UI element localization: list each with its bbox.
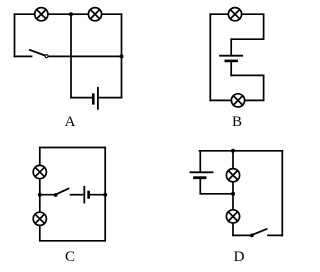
wire A middle horizontal left segment (to switch) — [15, 55, 32, 57]
battery G3 short plate (circuit C, right) — [87, 192, 90, 197]
wire D loop bottom horizontal — [200, 193, 233, 195]
node junction dot D middle (loop bottom to main vertical) — [231, 192, 235, 196]
wire A top: y=14.2 from left corner to right corner — [15, 13, 122, 15]
wire C top: y=147.5 — [40, 147, 105, 149]
switch S1 pivot circle — [45, 55, 48, 58]
lamp L4 (circuit B, bottom) — [231, 94, 244, 107]
battery G3 long plate (circuit C, left) — [83, 187, 85, 203]
wire D top: y=150.8 — [200, 150, 283, 152]
wire D main vertical (through lamps) — [232, 151, 234, 236]
battery G1 short plate (negative, circuit A) — [92, 95, 95, 104]
wire B right vertical lower — [263, 75, 265, 100]
battery G2 short plate (circuit B, bottom) — [226, 60, 237, 63]
wire A right vertical — [121, 14, 123, 97]
wire B bottom: y=100.4 — [210, 99, 263, 101]
battery G2 long plate (circuit B, top) — [220, 55, 242, 57]
switch S3 blade (circuit D) — [252, 229, 267, 235]
node junction dot C right (middle wire to right vertical) — [103, 193, 107, 197]
wire B inner vertical lower (from battery) — [230, 62, 232, 76]
label C — [55, 249, 85, 266]
switch S2 pivot dot (circuit C) — [54, 193, 58, 197]
battery G4 short plate (circuit D, bottom) — [195, 176, 206, 179]
wire B upper step horizontal — [231, 38, 263, 40]
battery G1 long plate (positive, circuit A) — [97, 88, 99, 109]
lamp L5 (circuit C, upper-left) — [33, 165, 46, 178]
switch S3 pivot dot (circuit D) — [250, 234, 254, 238]
wire C left vertical — [39, 148, 41, 241]
wire A bottom left segment (to battery) — [71, 97, 92, 99]
wire C right vertical — [104, 148, 106, 241]
switch S2 blade (circuit C) — [56, 189, 69, 195]
wire C middle segment (switch to battery) — [71, 194, 83, 196]
lamp L7 (circuit D, upper) — [226, 169, 239, 182]
wire B lower step horizontal — [231, 74, 263, 76]
wire A center vertical (top junction to bottom wire) — [70, 14, 72, 97]
label A — [55, 114, 85, 131]
lamp L8 (circuit D, lower) — [226, 210, 239, 223]
wire C bottom: y=240.8 — [40, 240, 105, 242]
wire C middle right segment (battery to right vertical) — [90, 194, 105, 196]
wire B right vertical upper — [263, 14, 265, 39]
label B — [222, 114, 252, 131]
wire D bottom left segment (to switch) — [233, 234, 250, 236]
node junction dot A top (between lamps) — [69, 12, 73, 16]
wire D right vertical — [281, 151, 283, 236]
node junction dot C left (left vertical to middle wire) — [38, 193, 42, 197]
wire D left vertical lower (battery to bottom of loop) — [199, 179, 201, 194]
wire A left vertical — [14, 14, 16, 56]
wire D left vertical upper (to battery) — [199, 151, 201, 172]
wire B top: y=14.2 — [210, 13, 263, 15]
lamp L1 (circuit A, top-left) — [35, 8, 48, 21]
node junction dot D top (top wire to main vertical) — [231, 149, 235, 153]
wire C middle left segment (junction to switch pivot) — [40, 194, 54, 196]
lamp L6 (circuit C, lower-left) — [33, 212, 46, 225]
switch S1 blade (circuit A) — [30, 50, 45, 56]
battery G4 long plate (circuit D, top) — [190, 171, 212, 173]
label D — [224, 249, 254, 266]
node junction dot A right (middle wire to right vertical) — [120, 54, 124, 58]
lamp L2 (circuit A, top-right) — [88, 8, 101, 21]
wire B inner vertical upper (to battery) — [230, 39, 232, 55]
wire B left vertical — [209, 14, 211, 100]
lamp L3 (circuit B, top) — [228, 8, 241, 21]
wire A bottom right segment — [99, 97, 121, 99]
wire D bottom right segment — [268, 234, 282, 236]
wire A middle horizontal right segment — [49, 55, 122, 57]
